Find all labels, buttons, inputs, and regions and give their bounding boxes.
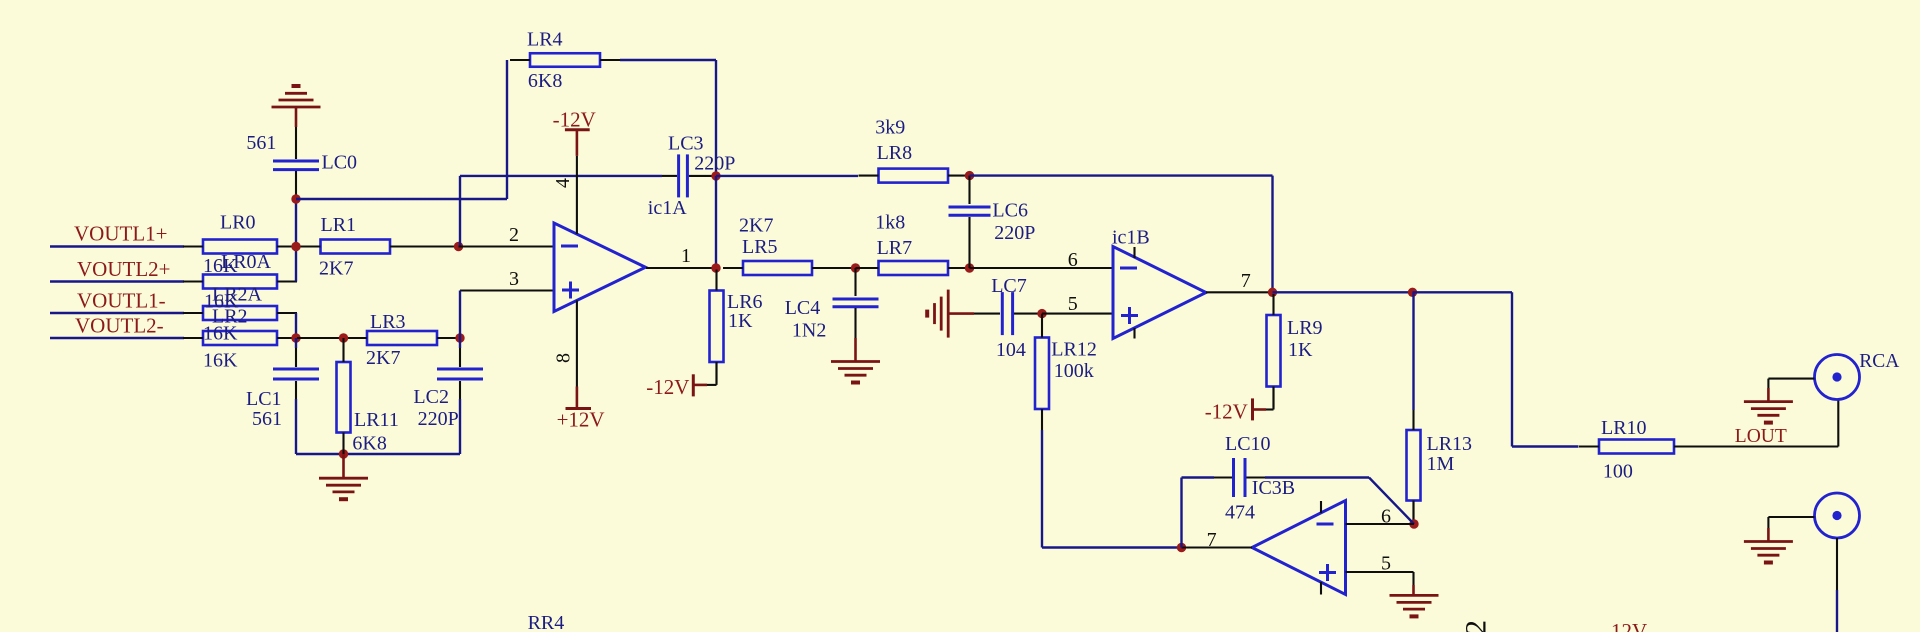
svg-text:7: 7 xyxy=(1241,270,1251,292)
svg-text:LC0: LC0 xyxy=(322,152,358,174)
svg-text:LOUT: LOUT xyxy=(1735,426,1787,447)
svg-text:1: 1 xyxy=(681,245,691,267)
svg-text:3k9: 3k9 xyxy=(875,117,905,139)
svg-text:4: 4 xyxy=(552,178,574,188)
svg-text:LR2A: LR2A xyxy=(212,284,263,306)
svg-text:2K7: 2K7 xyxy=(319,258,353,280)
svg-text:VOUTL2+: VOUTL2+ xyxy=(77,257,171,281)
svg-text:220P: 220P xyxy=(694,153,735,175)
svg-text:6K8: 6K8 xyxy=(528,70,562,92)
svg-text:1K: 1K xyxy=(1288,339,1313,361)
svg-text:LR0: LR0 xyxy=(220,212,256,234)
svg-text:LR12: LR12 xyxy=(1051,339,1097,361)
svg-text:LR13: LR13 xyxy=(1427,433,1473,455)
svg-text:100k: 100k xyxy=(1054,360,1094,382)
svg-text:474: 474 xyxy=(1225,502,1255,524)
svg-text:LR4: LR4 xyxy=(527,29,563,51)
svg-text:LR0A: LR0A xyxy=(221,251,272,273)
svg-text:LR2: LR2 xyxy=(212,306,248,328)
svg-text:561: 561 xyxy=(252,408,282,430)
svg-text:ic1A: ic1A xyxy=(648,197,687,219)
svg-text:ic1B: ic1B xyxy=(1112,227,1150,249)
svg-text:1k8: 1k8 xyxy=(875,212,905,234)
svg-text:5: 5 xyxy=(1381,553,1391,575)
svg-text:100: 100 xyxy=(1603,461,1633,483)
svg-text:LR3: LR3 xyxy=(370,311,406,333)
svg-text:16K: 16K xyxy=(203,350,238,372)
svg-text:+12V: +12V xyxy=(557,407,605,431)
svg-text:7: 7 xyxy=(1207,529,1217,551)
svg-text:2: 2 xyxy=(509,224,519,246)
svg-text:VOUTL2-: VOUTL2- xyxy=(75,314,164,338)
svg-text:LR7: LR7 xyxy=(877,237,913,259)
svg-text:220P: 220P xyxy=(418,408,459,430)
svg-text:2: 2 xyxy=(1460,620,1493,632)
svg-text:LC7: LC7 xyxy=(991,275,1027,297)
svg-text:220P: 220P xyxy=(994,222,1035,244)
svg-text:LC2: LC2 xyxy=(413,386,449,408)
svg-text:8: 8 xyxy=(553,353,575,363)
svg-text:-12V: -12V xyxy=(646,375,689,399)
svg-text:LR5: LR5 xyxy=(742,236,778,258)
svg-text:LR9: LR9 xyxy=(1287,317,1323,339)
svg-text:RCA: RCA xyxy=(1859,351,1899,372)
svg-text:IC3B: IC3B xyxy=(1252,477,1295,499)
svg-text:LC6: LC6 xyxy=(992,200,1028,222)
svg-text:LC10: LC10 xyxy=(1225,433,1271,455)
svg-text:VOUTL1-: VOUTL1- xyxy=(77,289,166,313)
svg-text:5: 5 xyxy=(1068,293,1078,315)
svg-text:-12V: -12V xyxy=(553,108,596,132)
svg-text:LR10: LR10 xyxy=(1601,417,1647,439)
svg-text:-12V: -12V xyxy=(1205,399,1248,423)
svg-text:-12V: -12V xyxy=(1604,619,1647,632)
svg-text:LR8: LR8 xyxy=(877,142,913,164)
svg-text:RR4: RR4 xyxy=(528,612,565,632)
svg-text:LC3: LC3 xyxy=(668,133,704,155)
svg-text:6: 6 xyxy=(1068,249,1078,271)
svg-text:561: 561 xyxy=(246,132,276,154)
svg-text:2K7: 2K7 xyxy=(739,215,773,237)
svg-text:6: 6 xyxy=(1381,506,1391,528)
svg-text:1K: 1K xyxy=(728,310,753,332)
svg-text:104: 104 xyxy=(996,339,1026,361)
svg-text:1N2: 1N2 xyxy=(792,320,826,342)
svg-text:2K7: 2K7 xyxy=(366,347,400,369)
svg-text:VOUTL1+: VOUTL1+ xyxy=(74,222,168,246)
svg-text:3: 3 xyxy=(509,268,519,290)
svg-text:LC4: LC4 xyxy=(785,297,821,319)
svg-text:LC1: LC1 xyxy=(246,388,282,410)
svg-text:6K8: 6K8 xyxy=(352,433,386,455)
svg-text:LR1: LR1 xyxy=(321,214,357,236)
svg-text:LR11: LR11 xyxy=(354,409,399,431)
svg-text:1M: 1M xyxy=(1427,453,1455,475)
